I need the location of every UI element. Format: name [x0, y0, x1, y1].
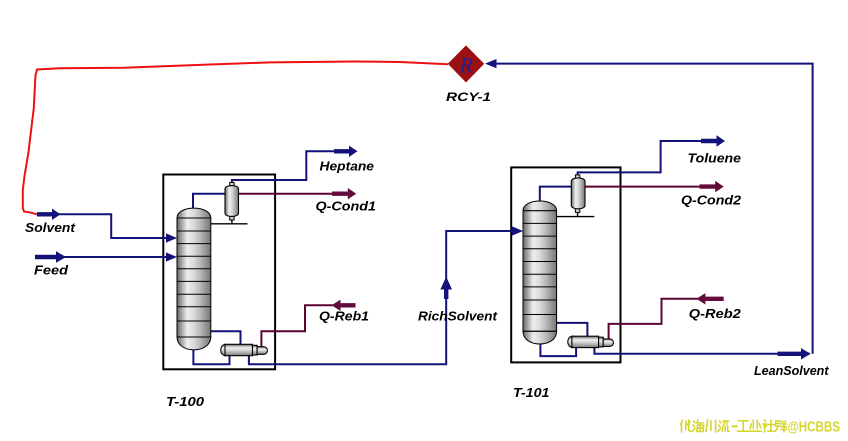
column T-101 vessel — [523, 201, 557, 344]
wire energy stream Q-Cond1 — [239, 193, 349, 195]
glyph hyphen — [732, 425, 737, 427]
wire column T-100 to reboiler — [211, 331, 241, 345]
wire energy stream Q-Cond2 — [585, 186, 716, 188]
glyph 川 — [706, 420, 716, 432]
arrowhead into RCY-1 — [485, 59, 497, 68]
thick arrow RichSolvent (points up) — [440, 277, 452, 300]
watermark 化海川流-工业社群@HCBBS — [681, 420, 787, 432]
wire column T-100 overhead to condenser — [193, 194, 225, 210]
glyph 化 — [681, 420, 692, 432]
svg-text:Q-Cond2: Q-Cond2 — [681, 192, 742, 207]
arrowhead Solvent into column — [166, 233, 177, 242]
wire recycle return (navy) from LeanSolvent corner to RCY-1 — [496, 64, 813, 354]
wire recycle outlet (red) from RCY-1 to Solvent — [23, 62, 448, 215]
sub-flowsheet box T-101 — [511, 167, 620, 362]
glyph 社 — [763, 420, 774, 432]
wire condenser liquid return T-101 — [577, 209, 579, 217]
svg-text:R: R — [459, 53, 474, 78]
svg-text:Q-Cond1: Q-Cond1 — [316, 198, 377, 213]
glyph 工 — [738, 421, 750, 431]
svg-text:RichSolvent: RichSolvent — [418, 309, 498, 324]
wire stream Solvent — [45, 214, 174, 238]
wire stream Toluene — [578, 141, 719, 181]
thick arrow Heptane outlet — [334, 146, 358, 157]
wire column T-100 bottoms to reboiler — [193, 348, 229, 364]
svg-text:Heptane: Heptane — [320, 159, 375, 174]
svg-text:Toluene: Toluene — [688, 150, 742, 165]
svg-text:Q-Reb1: Q-Reb1 — [319, 308, 369, 323]
trays T-100 — [177, 231, 211, 321]
wire stream LeanSolvent — [594, 346, 810, 354]
wire energy stream Q-Reb2 — [609, 299, 698, 339]
wire stream Feed — [45, 256, 174, 258]
wire column T-101 overhead to condenser — [540, 187, 572, 202]
thick arrow LeanSolvent outlet — [778, 348, 811, 359]
svg-text:Solvent: Solvent — [25, 220, 76, 235]
glyph 业 — [750, 420, 762, 431]
svg-text:Q-Reb2: Q-Reb2 — [689, 306, 742, 321]
wire column T-101 to reboiler — [557, 323, 588, 337]
reboiler T-100 — [221, 344, 268, 355]
thick arrow Q-Reb1 inlet (points left) — [332, 300, 356, 311]
wire energy stream Q-Reb1 — [261, 305, 333, 347]
svg-text:LeanSolvent: LeanSolvent — [754, 363, 829, 378]
trays T-101 — [523, 223, 557, 314]
glyph 流 — [718, 421, 729, 432]
wire stream Heptane — [232, 151, 352, 186]
thick arrow Q-Cond1 outlet — [332, 188, 356, 199]
thick arrow Toluene outlet — [701, 135, 725, 146]
thick arrow Feed inlet — [35, 251, 66, 262]
thick arrow Solvent inlet — [37, 209, 61, 220]
thick arrow Q-Cond2 outlet — [700, 181, 724, 192]
arrowhead Feed into column — [166, 252, 177, 261]
svg-text:T-100: T-100 — [166, 394, 205, 409]
wire column T-101 bottoms to reboiler — [540, 341, 576, 356]
wire stream RichSolvent T-100 to T-101 — [249, 231, 520, 364]
reboiler T-101 — [568, 336, 614, 347]
column T-100 vessel — [177, 208, 211, 350]
condenser T-101 — [571, 175, 585, 213]
condenser T-100 — [225, 183, 239, 221]
thick arrow Q-Reb2 inlet (points left) — [696, 293, 723, 304]
sub-flowsheet box T-100 — [163, 175, 275, 370]
glyph 群 — [775, 421, 786, 432]
svg-text:T-101: T-101 — [513, 385, 550, 400]
svg-text:Feed: Feed — [34, 262, 69, 277]
recycle block RCY-1 — [448, 45, 484, 82]
svg-text:@HCBBS: @HCBBS — [788, 419, 841, 436]
arrowhead RichSolvent into column T-101 — [512, 226, 523, 235]
svg-text:RCY-1: RCY-1 — [446, 90, 491, 104]
wire condenser liquid return T-100 — [231, 216, 233, 224]
glyph 海 — [692, 420, 703, 432]
